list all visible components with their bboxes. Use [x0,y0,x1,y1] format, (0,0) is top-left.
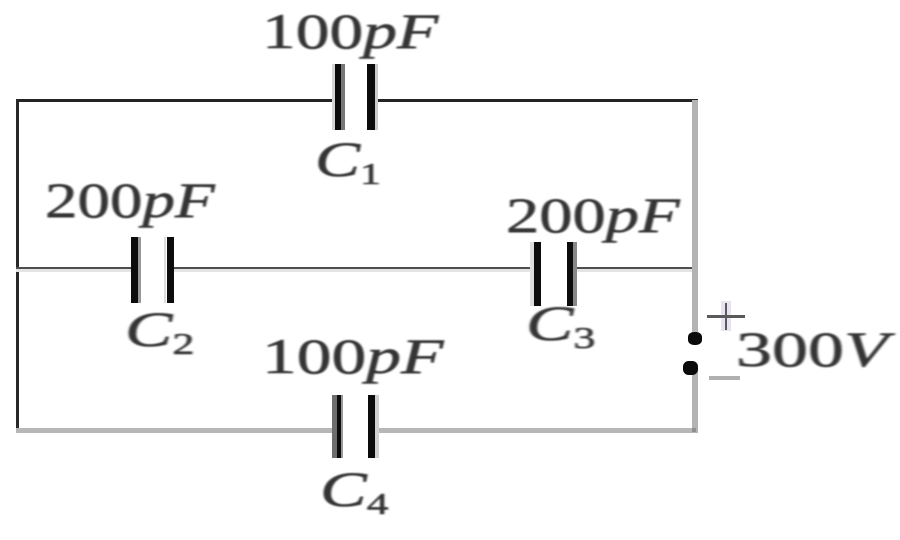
capacitor C1 [0,0,1,1]
wire: middle rail segment B [168,267,538,269]
wire: middle rail segment A [16,267,136,269]
wire: bottom rail right segment [368,428,698,433]
wire: right edge upper segment [692,100,699,336]
wire: left edge vertical [16,99,19,433]
capacitor C3 [0,0,1,1]
capacitor C4 [0,0,1,1]
value label 100pF for C1 [262,6,438,56]
source value label 300V [736,324,888,374]
reference label C4 [320,464,388,514]
capacitor C2 [0,0,1,1]
wire: right edge lower segment [692,370,699,433]
node: bottom-right corner junction [692,428,696,432]
polarity - symbol [709,376,741,380]
polarity + symbol [0,0,1,1]
wire: top rail left segment [16,99,338,102]
wire: middle rail segment C [569,267,694,269]
value label 200pF for C2 [45,175,215,225]
wire: middle rail light shadow segment C [569,269,694,272]
reference label C1 [315,134,381,184]
node: + terminal dot [688,332,703,345]
wire: middle rail light shadow segment A [16,269,136,272]
node: - terminal dot [683,361,698,375]
value label 100pF for C4 [262,331,443,381]
wire: top rail right segment [371,99,698,102]
reference label C2 [125,304,194,354]
wire: bottom rail left segment [16,428,343,433]
wire: middle rail light shadow segment B [168,269,538,272]
reference label C3 [526,298,595,348]
value label 200pF for C3 [506,190,680,240]
